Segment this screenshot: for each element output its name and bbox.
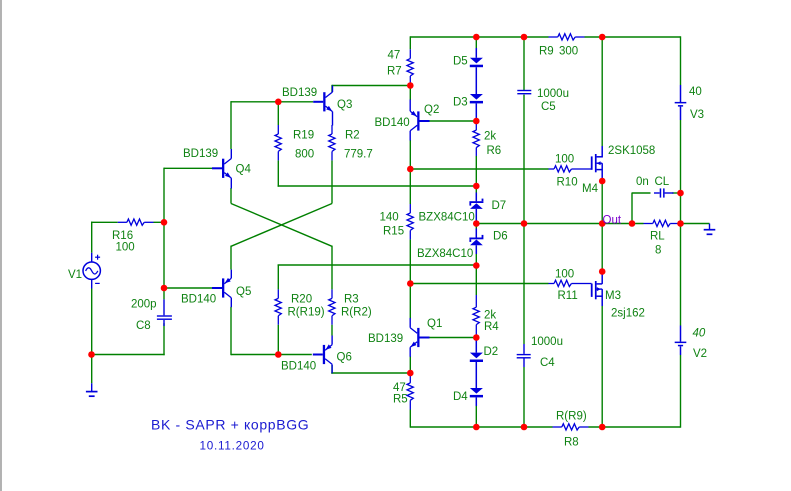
svg-text:BD139: BD139 <box>183 148 218 160</box>
svg-text:R4: R4 <box>484 321 499 333</box>
junction D3 / Q2 base / R6 <box>473 118 480 125</box>
wire R6 to D7 node <box>475 156 477 186</box>
junction top rail / M4 drain <box>599 34 606 41</box>
wire R2 bottom down <box>331 160 333 203</box>
wire Q4 base row <box>164 167 212 169</box>
wire C4 column bottom <box>523 367 525 428</box>
wire C4 column top <box>523 224 525 345</box>
svg-text:R20: R20 <box>291 294 312 306</box>
battery V2 <box>680 326 682 342</box>
wire R20 bottom <box>277 325 279 355</box>
wire Q6 collector row <box>331 372 410 374</box>
wire node CL to rail <box>680 193 682 224</box>
svg-text:R11: R11 <box>558 290 578 302</box>
wire Q3 base row <box>231 101 313 103</box>
diode D4 <box>470 388 483 394</box>
resistor R9 <box>549 36 558 38</box>
transistor Q2 <box>417 111 419 130</box>
svg-text:Out: Out <box>603 214 622 226</box>
svg-text:2k: 2k <box>484 131 496 143</box>
junction row265 / D6 anode <box>473 262 480 269</box>
svg-text:40: 40 <box>693 328 706 340</box>
svg-text:Q5: Q5 <box>236 286 251 298</box>
wire M4 drain column <box>601 36 603 146</box>
wire Q4 collector up <box>230 101 232 149</box>
junction bottom rail / C4 <box>521 424 528 431</box>
svg-text:C4: C4 <box>540 357 555 369</box>
junction out rail / D6 node <box>473 220 480 227</box>
zener D7 <box>475 193 477 202</box>
wire Q1 collector <box>409 284 411 319</box>
junction M3 source <box>599 268 606 275</box>
resistor R11 <box>549 283 555 285</box>
wire node row y265 <box>278 264 477 266</box>
svg-text:2sj162: 2sj162 <box>611 308 645 320</box>
wire C8 column upper <box>163 222 165 299</box>
diode D3 <box>470 94 483 100</box>
wire Q1 emitter to node <box>409 356 411 373</box>
wire V1 top <box>91 222 93 253</box>
wire diag B to Q5 emitter <box>230 246 232 270</box>
wire out rail left <box>476 223 643 225</box>
svg-text:R7: R7 <box>387 66 402 78</box>
wire CL left stub <box>631 193 633 224</box>
wire R5 bottom to rail <box>409 410 411 428</box>
transistor Q4 <box>222 159 224 178</box>
svg-text:D2: D2 <box>484 346 499 358</box>
wire M3 gate row <box>410 283 548 285</box>
svg-text:40: 40 <box>689 86 702 98</box>
svg-text:R5: R5 <box>393 394 408 406</box>
capacitor C5 <box>517 90 531 91</box>
ground at V1 <box>91 383 93 391</box>
svg-text:RL: RL <box>650 231 665 243</box>
junction top rail / C5 <box>521 34 528 41</box>
resistor R7 <box>409 49 411 58</box>
svg-text:2SK1058: 2SK1058 <box>608 145 655 157</box>
svg-text:R(R19): R(R19) <box>288 307 325 319</box>
battery V3 <box>680 85 682 102</box>
mosfet M3 <box>591 284 593 297</box>
wire Q5 base row <box>164 287 212 289</box>
junction bottom rail / D4 <box>473 424 480 431</box>
wire Q2 base row <box>429 120 476 122</box>
resistor R3 <box>331 289 333 298</box>
svg-text:47: 47 <box>393 382 406 394</box>
svg-text:300: 300 <box>559 46 578 58</box>
junction out rail / V rail <box>677 220 684 227</box>
wire cross diagonal A <box>231 204 332 247</box>
svg-text:100: 100 <box>555 269 574 281</box>
resistor RL <box>644 223 653 225</box>
capacitor C8 <box>163 299 165 315</box>
svg-text:M4: M4 <box>582 183 599 195</box>
svg-text:BD140: BD140 <box>181 294 216 306</box>
wire D4 bottom to rail <box>475 406 477 428</box>
wire out rail right <box>680 223 710 225</box>
junction V1 / bottom row <box>88 351 95 358</box>
svg-text:R2: R2 <box>345 130 360 142</box>
wire top supply rail <box>410 36 548 38</box>
resistor R20 <box>277 289 279 298</box>
svg-text:R15: R15 <box>383 226 404 238</box>
junction M4 source <box>599 178 606 185</box>
svg-text:100: 100 <box>555 154 574 166</box>
svg-text:BZX84C10: BZX84C10 <box>417 248 473 260</box>
resistor R6 <box>475 122 477 130</box>
wire R16 right <box>154 221 165 223</box>
wire rail to V2 <box>680 224 682 326</box>
mosfet M4 <box>591 156 593 169</box>
svg-text:D4: D4 <box>453 391 468 403</box>
wire Q4 emitter down <box>230 188 232 204</box>
wire Q1 base row <box>429 337 476 339</box>
wire cross diagonal B <box>231 204 332 247</box>
wire R19 bottom corner <box>277 160 279 186</box>
svg-text:C8: C8 <box>136 320 151 332</box>
wire D6 top lead <box>475 224 477 229</box>
svg-text:Q4: Q4 <box>236 164 252 176</box>
junction R4 / Q1 base <box>473 334 480 341</box>
wire C5 column top <box>523 36 525 90</box>
junction Q6 collector / Q1 emitter <box>407 370 414 377</box>
wire D7 top lead <box>475 186 477 193</box>
junction R15 / M3 gate row <box>407 280 414 287</box>
junction Q3 base / R19 <box>275 99 282 106</box>
svg-text:1000u: 1000u <box>531 336 563 348</box>
wire Q2 emitter <box>409 86 411 101</box>
junction out rail / CL stub <box>629 220 636 227</box>
wire bottom left row <box>92 354 165 356</box>
svg-text:BK - SAPR + коррBGG: BK - SAPR + коррBGG <box>151 417 309 433</box>
svg-text:200p: 200p <box>131 299 157 311</box>
wire node to R4 <box>475 266 477 296</box>
wire R16 left <box>91 221 118 223</box>
svg-text:M3: M3 <box>605 290 621 302</box>
wire Q5-Q6 base row <box>231 354 312 356</box>
junction Q2 collector / M4 gate row <box>407 166 414 173</box>
svg-text:R8: R8 <box>564 437 579 449</box>
svg-text:R6: R6 <box>487 145 502 157</box>
resistor R16 <box>118 221 127 223</box>
svg-text:V2: V2 <box>693 348 707 360</box>
wire diode col top <box>475 36 477 48</box>
wire R19 top <box>277 102 279 125</box>
transistor Q3 <box>323 92 325 111</box>
wire V3 top lead <box>680 36 682 85</box>
svg-text:D3: D3 <box>453 97 468 109</box>
resistor R10 <box>549 168 555 170</box>
svg-text:8: 8 <box>655 245 661 257</box>
svg-text:Q1: Q1 <box>427 318 442 330</box>
junction top rail / diode column <box>473 34 480 41</box>
svg-text:R10: R10 <box>557 177 578 189</box>
wire R15 to node B <box>409 239 411 283</box>
wire Q5 collector down <box>230 307 232 355</box>
wire node to R15 <box>409 169 411 204</box>
wire D6 to node <box>475 254 477 266</box>
svg-text:140: 140 <box>380 212 399 224</box>
wire R7 top lead <box>409 36 411 49</box>
junction R7 / Q2 emitter <box>407 82 414 89</box>
svg-text:R3: R3 <box>344 294 359 306</box>
junction out rail / C4 <box>521 220 528 227</box>
wire V1 to ground <box>91 355 93 384</box>
diode D5 <box>475 48 477 58</box>
svg-text:1000u: 1000u <box>537 88 569 100</box>
svg-text:Q6: Q6 <box>337 352 352 364</box>
svg-text:D7: D7 <box>492 200 507 212</box>
wire V1 bottom <box>91 289 93 355</box>
resistor R8 <box>553 426 562 428</box>
wire M3 drain column <box>601 306 603 428</box>
svg-text:2k: 2k <box>484 310 496 322</box>
resistor R4 <box>475 295 477 307</box>
svg-text:V1: V1 <box>68 269 82 281</box>
svg-text:800: 800 <box>295 149 314 161</box>
junction Q5 base tap <box>161 285 168 292</box>
svg-text:V3: V3 <box>690 109 704 121</box>
wire out to M3 source <box>601 224 603 272</box>
junction row186 / D7 <box>473 183 480 190</box>
svg-text:Q2: Q2 <box>424 104 439 116</box>
transistor Q5 <box>222 278 224 297</box>
svg-text:100: 100 <box>116 242 135 254</box>
svg-text:D5: D5 <box>453 56 468 68</box>
wire V3 bottom to out node <box>680 120 682 193</box>
resistor R5 <box>409 374 411 383</box>
capacitor C4 <box>523 344 525 354</box>
diode D2 <box>475 338 477 353</box>
svg-text:R(R2): R(R2) <box>341 307 372 319</box>
wire input node column <box>163 168 165 223</box>
svg-text:C5: C5 <box>541 101 556 113</box>
wire bottom negative rail <box>410 426 552 428</box>
left window border <box>0 0 2 491</box>
wire R3 to Q6 emitter <box>331 325 333 336</box>
svg-text:0n: 0n <box>636 176 649 188</box>
svg-text:BD139: BD139 <box>368 333 403 345</box>
junction Q5 collector / R20 <box>275 351 282 358</box>
ground at output <box>709 224 711 230</box>
transistor Q1 <box>417 328 419 347</box>
resistor R2 <box>331 125 333 134</box>
svg-text:R9: R9 <box>539 46 554 58</box>
svg-text:CL: CL <box>655 176 670 188</box>
voltage source V1 <box>91 253 93 262</box>
resistor R19 <box>277 125 279 134</box>
wire Q3 collector top <box>332 85 410 87</box>
svg-text:BD140: BD140 <box>281 361 316 373</box>
svg-text:BD140: BD140 <box>375 117 410 129</box>
wire R20 top corner <box>277 265 279 290</box>
wire M4 source to out <box>601 181 603 224</box>
transistor Q6 <box>323 345 325 364</box>
junction CL / V3 column <box>677 190 684 197</box>
wire node row y186 <box>278 185 477 187</box>
wire V2 bottom <box>680 355 682 428</box>
capacitor CL <box>654 192 660 194</box>
junction R16 / input column <box>161 219 168 226</box>
junction bottom rail / M3 drain <box>599 424 606 431</box>
svg-text:10.11.2020: 10.11.2020 <box>200 439 265 452</box>
wire C8 column lower <box>163 323 165 355</box>
svg-text:R19: R19 <box>293 130 314 142</box>
svg-text:R16: R16 <box>112 230 133 242</box>
wire Q2 collector to node <box>409 140 411 169</box>
svg-text:BZX84C10: BZX84C10 <box>419 212 475 224</box>
node Out junction <box>599 220 606 227</box>
resistor R15 <box>409 204 411 213</box>
svg-text:D6: D6 <box>493 231 508 243</box>
wire diag A to R3 <box>331 246 333 290</box>
svg-text:779.7: 779.7 <box>344 149 373 161</box>
svg-text:R(R9): R(R9) <box>556 411 587 423</box>
wire C5 column bottom <box>523 95 525 224</box>
svg-text:BD139: BD139 <box>282 87 317 99</box>
svg-text:Q3: Q3 <box>337 99 352 111</box>
wire M4 gate row <box>410 168 548 170</box>
zener D6 <box>475 229 477 238</box>
svg-text:47: 47 <box>388 50 401 62</box>
wire CL right <box>672 192 681 194</box>
